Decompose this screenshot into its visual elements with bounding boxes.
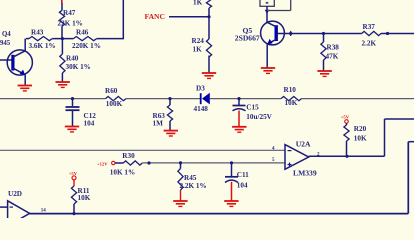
- svg-text:R45: R45: [184, 174, 197, 182]
- svg-text:R20: R20: [354, 125, 367, 133]
- svg-text:10K 1%: 10K 1%: [110, 169, 135, 177]
- svg-text:10K: 10K: [285, 99, 298, 107]
- svg-text:4148: 4148: [194, 105, 209, 113]
- svg-text:1K: 1K: [193, 0, 203, 7]
- svg-text:47K: 47K: [326, 52, 339, 60]
- svg-text:R10: R10: [284, 86, 297, 94]
- svg-text:10K: 10K: [354, 135, 367, 143]
- svg-text:104: 104: [84, 120, 95, 128]
- svg-text:2.2K: 2.2K: [362, 39, 377, 47]
- svg-text:FANC: FANC: [145, 12, 166, 21]
- svg-text:R47: R47: [63, 9, 76, 17]
- svg-text:22K 1%: 22K 1%: [58, 19, 83, 27]
- svg-text:+12V: +12V: [97, 161, 108, 166]
- svg-text:R40: R40: [66, 54, 79, 62]
- svg-text:LM339: LM339: [293, 169, 317, 178]
- svg-text:C11: C11: [237, 171, 249, 179]
- svg-text:2SD667: 2SD667: [235, 34, 260, 43]
- svg-text:R24: R24: [192, 37, 205, 45]
- svg-text:Q4: Q4: [2, 31, 11, 38]
- svg-text:220K 1%: 220K 1%: [72, 42, 101, 50]
- svg-text:945: 945: [0, 40, 11, 47]
- svg-text:100K: 100K: [106, 100, 123, 108]
- svg-text:R38: R38: [327, 43, 340, 51]
- svg-text:D3: D3: [196, 84, 205, 92]
- svg-text:+5V: +5V: [341, 115, 350, 120]
- svg-text:1K: 1K: [193, 46, 203, 54]
- svg-text:U2D: U2D: [8, 190, 22, 198]
- svg-text:U2A: U2A: [296, 140, 311, 149]
- svg-text:10K: 10K: [78, 194, 91, 202]
- svg-text:R46: R46: [76, 29, 89, 37]
- svg-text:R43: R43: [31, 29, 44, 37]
- svg-text:104: 104: [237, 182, 248, 190]
- svg-text:2.2K 1%: 2.2K 1%: [180, 182, 207, 190]
- svg-text:1M: 1M: [153, 120, 164, 128]
- svg-text:R60: R60: [105, 87, 118, 95]
- svg-text:10u/25V: 10u/25V: [246, 113, 272, 121]
- svg-text:14: 14: [41, 209, 47, 214]
- svg-text:R37: R37: [363, 23, 376, 31]
- svg-text:+5V: +5V: [69, 171, 78, 176]
- svg-text:30K 1%: 30K 1%: [66, 63, 91, 71]
- svg-text:3.6K 1%: 3.6K 1%: [29, 42, 56, 50]
- svg-text:C15: C15: [246, 104, 259, 112]
- svg-text:R30: R30: [122, 152, 135, 160]
